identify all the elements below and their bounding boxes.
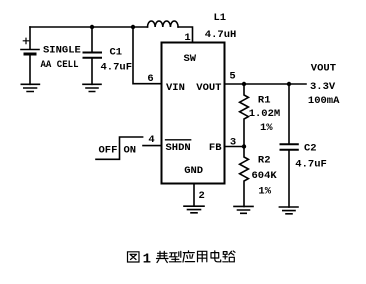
- capacitor C1 top wire: [91, 27, 93, 52]
- wire pin 4 SHDN: [143, 145, 162, 147]
- svg-text:C1: C1: [110, 47, 123, 59]
- junction node C2 top: [287, 82, 291, 86]
- junction node VIN: [131, 25, 135, 29]
- capacitor C2 bottom wire: [288, 151, 290, 207]
- ground pin 2: [184, 206, 204, 213]
- svg-text:1%: 1%: [258, 186, 271, 198]
- wire top net battery to L1: [30, 26, 148, 28]
- caption char yong (use): [198, 251, 207, 261]
- wire VIN net down to pin 6: [133, 27, 162, 84]
- svg-text:100mA: 100mA: [308, 95, 340, 107]
- junction node FB: [242, 144, 246, 148]
- junction node C1 top: [90, 25, 94, 29]
- capacitor C2 top wire: [288, 84, 290, 144]
- overline of SHDN: [166, 139, 191, 141]
- svg-text:ON: ON: [124, 144, 137, 156]
- svg-text:SINGLE: SINGLE: [43, 45, 81, 57]
- inductor L1: [148, 21, 179, 27]
- svg-text:1%: 1%: [260, 122, 273, 134]
- svg-text:4.7uF: 4.7uF: [101, 62, 133, 74]
- svg-text:SHDN: SHDN: [166, 142, 191, 154]
- caption char dian (classic): [157, 251, 169, 262]
- switch ON/OFF waveform: [96, 137, 143, 159]
- ground C1: [83, 84, 101, 91]
- svg-text:C2: C2: [304, 142, 317, 154]
- svg-text:OFF: OFF: [99, 144, 118, 156]
- capacitor C1 plates: [84, 53, 102, 58]
- svg-text:VOUT: VOUT: [196, 82, 221, 94]
- svg-text:R2: R2: [258, 154, 271, 166]
- svg-text:3: 3: [230, 137, 236, 149]
- svg-text:R1: R1: [258, 94, 271, 106]
- svg-text:1.02M: 1.02M: [249, 108, 281, 120]
- ground battery: [21, 84, 39, 91]
- resistor R2: [240, 147, 249, 207]
- svg-text:SW: SW: [184, 53, 197, 65]
- svg-text:604K: 604K: [252, 170, 278, 182]
- capacitor C2 plates: [281, 144, 298, 149]
- svg-text:GND: GND: [184, 165, 203, 177]
- caption char lu (road): [223, 251, 235, 262]
- caption char tu (figure): [128, 252, 140, 262]
- wire L1 to SW pin 1: [178, 27, 192, 43]
- caption char dian (electric): [211, 251, 221, 262]
- wire pin 5 VOUT net: [225, 83, 307, 85]
- battery B1 negative wire: [29, 56, 31, 85]
- battery B1 positive wire: [29, 27, 31, 49]
- battery B1 long plate: [21, 49, 39, 51]
- battery B1 short plate: [25, 53, 35, 56]
- svg-text:2: 2: [199, 190, 205, 202]
- capacitor C1 bottom wire: [91, 59, 93, 85]
- junction node R1 top: [242, 82, 246, 86]
- battery plus sign: [23, 38, 28, 43]
- svg-text:L1: L1: [214, 12, 227, 24]
- svg-text:3.3V: 3.3V: [310, 81, 336, 93]
- caption char ying (apply): [183, 251, 195, 262]
- svg-text:6: 6: [147, 73, 153, 85]
- svg-text:1: 1: [184, 32, 190, 44]
- svg-text:4.7uH: 4.7uH: [205, 29, 237, 41]
- caption char xing (model): [169, 251, 181, 261]
- svg-text:1: 1: [143, 252, 151, 268]
- resistor R1: [240, 84, 249, 147]
- wire pin 3 FB: [225, 146, 245, 148]
- svg-text:VIN: VIN: [166, 82, 185, 94]
- op-amp U1 chip body: [162, 43, 225, 184]
- svg-text:4.7uF: 4.7uF: [295, 158, 327, 170]
- ground R2: [234, 206, 253, 213]
- ground C2: [279, 207, 298, 214]
- svg-text:5: 5: [229, 71, 235, 83]
- wire pin 2 GND: [193, 184, 195, 207]
- svg-text:4: 4: [148, 134, 154, 146]
- svg-text:FB: FB: [209, 142, 222, 154]
- svg-text:AA CELL: AA CELL: [41, 59, 79, 71]
- svg-text:VOUT: VOUT: [311, 62, 336, 74]
